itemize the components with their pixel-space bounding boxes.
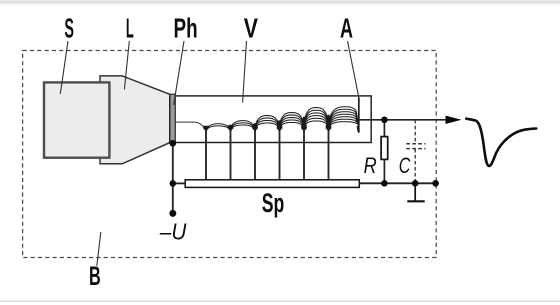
svg-text:S: S bbox=[64, 12, 74, 43]
housing B dashed box bbox=[23, 51, 437, 258]
wire dynode lead 5 bbox=[303, 130, 305, 180]
wire anode output bbox=[359, 119, 446, 121]
node dynode foot wedge bbox=[326, 115, 332, 132]
svg-text:Ph: Ph bbox=[174, 12, 198, 43]
ground bbox=[407, 183, 424, 201]
leader line V bbox=[243, 41, 247, 103]
wire dynode lead 1 bbox=[205, 130, 207, 180]
capacitor C stray dashed bbox=[406, 120, 425, 184]
wire dynode lead 6 bbox=[328, 130, 330, 180]
node dynode foot wedge bbox=[203, 126, 209, 132]
wire bottom bus bbox=[359, 182, 435, 184]
voltage divider Sp bbox=[185, 180, 359, 188]
anode A plate bbox=[358, 98, 360, 133]
node photocathode bottom bbox=[170, 140, 177, 147]
photocathode Ph bbox=[170, 94, 175, 143]
dynode cascade bump 1 bbox=[206, 124, 231, 131]
node divider left bbox=[170, 180, 177, 187]
node bottom at R bbox=[381, 180, 388, 187]
output arrow bbox=[446, 116, 462, 124]
dynode cascade bump 2 bbox=[231, 121, 256, 131]
leader line Ph bbox=[174, 41, 184, 105]
leader line B bbox=[97, 232, 101, 266]
node dynode foot wedge bbox=[277, 120, 283, 131]
terminal -U bbox=[169, 210, 176, 217]
resistor R bbox=[381, 120, 388, 184]
node bottom at housing bbox=[432, 180, 439, 187]
wire divider left to cathode wire bbox=[173, 182, 185, 184]
svg-text:A: A bbox=[340, 12, 353, 43]
node dynode foot wedge bbox=[252, 123, 258, 131]
svg-text:V: V bbox=[244, 12, 258, 43]
leader line L bbox=[124, 41, 129, 90]
svg-text:B: B bbox=[89, 261, 101, 291]
node dynode foot wedge bbox=[228, 125, 234, 132]
dynode cascade bump 5 bbox=[304, 108, 329, 131]
dynode cascade bump 6 bbox=[329, 107, 359, 132]
node anode output at R bbox=[381, 117, 388, 124]
node dynode foot wedge bbox=[301, 117, 307, 132]
light guide L bbox=[100, 76, 170, 164]
svg-text:–U: –U bbox=[159, 218, 187, 244]
output pulse waveform bbox=[466, 119, 536, 166]
node anode foot wedge bbox=[357, 125, 359, 132]
dynode cascade bump 3 bbox=[255, 116, 280, 131]
wire dynode lead 4 bbox=[279, 130, 281, 180]
leader line A bbox=[348, 41, 359, 98]
electron entry path from photocathode bbox=[175, 122, 206, 130]
wire dynode lead 2 bbox=[230, 130, 232, 180]
wire dynode lead 3 bbox=[254, 130, 256, 180]
svg-text:R: R bbox=[364, 153, 377, 178]
PM tube envelope V bbox=[170, 96, 371, 143]
leader line S bbox=[60, 41, 68, 94]
svg-text:Sp: Sp bbox=[262, 188, 285, 218]
svg-text:C: C bbox=[399, 153, 411, 178]
scintillator S bbox=[44, 82, 109, 157]
dynode cascade bump 4 bbox=[280, 113, 305, 131]
wire photocathode to -U terminal bbox=[172, 143, 174, 213]
node bottom at C ground bbox=[412, 180, 419, 187]
svg-text:L: L bbox=[126, 12, 134, 43]
